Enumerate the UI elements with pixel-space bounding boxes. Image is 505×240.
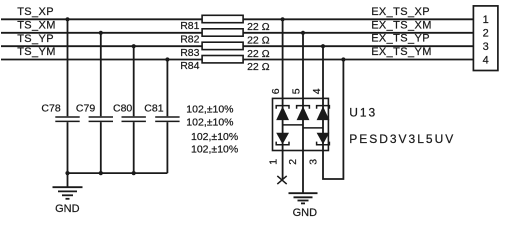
svg-text:3: 3 — [483, 41, 489, 53]
svg-text:R83: R83 — [180, 47, 199, 59]
svg-text:5: 5 — [290, 88, 302, 94]
svg-text:22 Ω: 22 Ω — [247, 35, 270, 47]
svg-text:22 Ω: 22 Ω — [247, 21, 270, 33]
svg-text:2: 2 — [483, 28, 489, 40]
svg-text:C81: C81 — [144, 103, 163, 115]
svg-text:EX_TS_YP: EX_TS_YP — [371, 33, 430, 45]
svg-text:TS_YM: TS_YM — [17, 46, 56, 58]
svg-text:102,±10%: 102,±10% — [186, 117, 233, 129]
svg-text:R84: R84 — [180, 60, 199, 72]
svg-text:TS_XP: TS_XP — [17, 6, 54, 18]
svg-text:3: 3 — [308, 159, 320, 165]
svg-text:102,±10%: 102,±10% — [191, 144, 238, 156]
svg-text:GND: GND — [55, 203, 80, 215]
svg-text:TS_XM: TS_XM — [17, 20, 56, 32]
svg-text:R82: R82 — [180, 33, 199, 45]
svg-text:102,±10%: 102,±10% — [191, 131, 238, 143]
svg-text:EX_TS_XM: EX_TS_XM — [371, 19, 432, 31]
svg-text:22 Ω: 22 Ω — [247, 48, 270, 60]
svg-text:2: 2 — [287, 159, 299, 165]
svg-text:1: 1 — [268, 159, 280, 165]
svg-text:4: 4 — [311, 88, 323, 94]
svg-text:PESD3V3L5UV: PESD3V3L5UV — [349, 132, 455, 146]
svg-text:102,±10%: 102,±10% — [186, 103, 233, 115]
svg-text:C80: C80 — [113, 103, 132, 115]
svg-text:C79: C79 — [76, 103, 95, 115]
svg-text:GND: GND — [293, 207, 318, 219]
svg-text:C78: C78 — [41, 103, 60, 115]
svg-text:22 Ω: 22 Ω — [247, 61, 270, 73]
svg-text:6: 6 — [270, 88, 282, 94]
svg-text:EX_TS_YM: EX_TS_YM — [371, 46, 432, 58]
svg-text:1: 1 — [483, 14, 489, 26]
svg-text:4: 4 — [483, 54, 489, 66]
svg-text:TS_YP: TS_YP — [17, 33, 54, 45]
svg-text:U13: U13 — [349, 105, 377, 119]
svg-text:EX_TS_XP: EX_TS_XP — [371, 6, 430, 18]
svg-text:R81: R81 — [180, 20, 199, 32]
